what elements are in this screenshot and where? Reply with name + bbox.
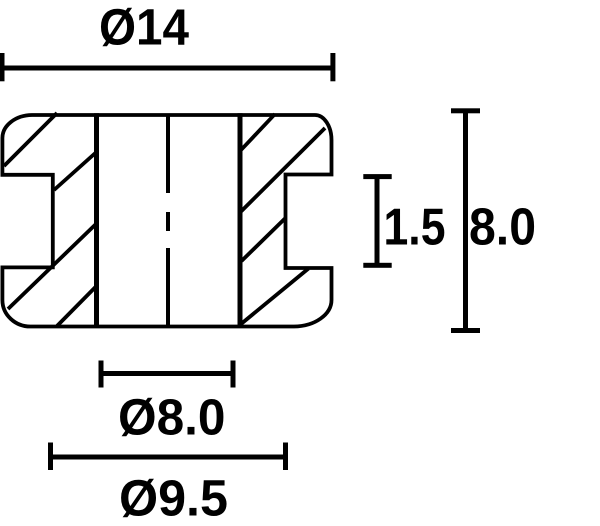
svg-text:1.5: 1.5 (384, 198, 446, 256)
svg-text:Ø9.5: Ø9.5 (119, 469, 228, 526)
svg-text:8.0: 8.0 (469, 198, 536, 256)
svg-text:Ø14: Ø14 (99, 0, 190, 56)
svg-text:Ø8.0: Ø8.0 (118, 388, 226, 445)
